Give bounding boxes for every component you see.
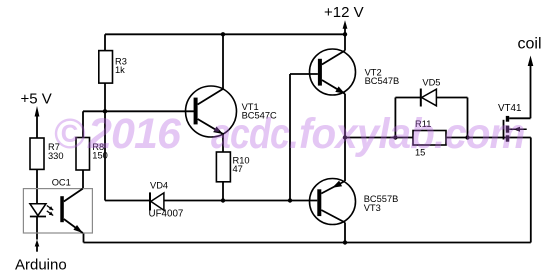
arrow +5V (35, 106, 40, 117)
wire VT2 collector (344, 34, 346, 50)
junction VT2/VT3 emitter node (343, 135, 347, 139)
wire VD5 right vertical (467, 98, 469, 138)
resistor R8 (76, 138, 108, 171)
wire R3 bottom to node (104, 83, 106, 111)
junction VD5 left / R11 left node (393, 135, 397, 139)
svg-text:UF4007: UF4007 (149, 209, 184, 220)
svg-text:OC1: OC1 (52, 178, 71, 188)
wire VT1 emitter to R10 (222, 134, 224, 152)
svg-text:VD5: VD5 (422, 78, 440, 88)
diode VD5 (421, 78, 441, 107)
svg-text:coil: coil (518, 36, 542, 53)
junction R3 bottom / R8 / VT1 base node (103, 109, 107, 113)
wire VD4 left (105, 200, 150, 202)
wire +12V arrow shaft (344, 27, 346, 34)
arrow +12V (343, 20, 348, 29)
light arrows (47, 206, 53, 211)
wire MOSFET source down (530, 138, 532, 243)
phototransistor (60, 196, 64, 222)
optocoupler OC1 (23, 178, 92, 234)
wire VD5 top right (436, 97, 467, 99)
junction VT2/VT3 base node (288, 198, 292, 202)
wire MOSFET drain (509, 117, 530, 119)
wire R10 bottom (222, 182, 224, 201)
transistor VT2 (310, 49, 400, 95)
wire bottom rail (84, 242, 531, 244)
wire VD5 left vertical (394, 98, 396, 138)
diode VD4 (149, 180, 184, 219)
wire VT2 emitter down (344, 94, 346, 138)
resistor R7 (30, 138, 64, 169)
svg-text:VD4: VD4 (150, 180, 168, 190)
wire VT1 collector (222, 34, 224, 89)
svg-text:+5 V: +5 V (21, 90, 52, 107)
svg-text:Arduino: Arduino (15, 257, 67, 274)
wire VT3 emitter up (344, 138, 346, 182)
junction VT1 collector on +12V rail (221, 32, 225, 36)
arrow coil (528, 56, 534, 67)
wire OC1 emitter to rail (83, 233, 85, 243)
wire VT3 collector down (344, 223, 346, 243)
wire VD4 right to VT3 base (164, 200, 317, 202)
resistor R3 (99, 51, 127, 84)
wire R7 to LED (36, 169, 38, 203)
junction VD5 right / R11 right node (465, 135, 469, 139)
wire R11 right to MOSFET (446, 137, 531, 139)
svg-text:+12 V: +12 V (324, 4, 364, 21)
arrow Arduino input (35, 240, 40, 247)
watermark (54, 113, 86, 156)
wire emitter node to R11 (345, 137, 413, 139)
wire VT2 base (290, 73, 318, 75)
wire Arduino arrow shaft (36, 246, 38, 252)
svg-text:VT3: VT3 (364, 203, 381, 213)
resistor R10 (216, 152, 249, 182)
wire coil vertical (530, 64, 532, 118)
svg-text:1k: 1k (115, 65, 125, 75)
junction R10 bottom on VD4 wire (221, 198, 225, 202)
LED triangle (30, 204, 46, 216)
wire +5V arrow shaft (36, 114, 38, 138)
svg-text:47: 47 (233, 164, 243, 174)
wire node to VT1 base (83, 110, 195, 112)
wire VD5 top left (395, 97, 420, 99)
wire R3 top (104, 34, 106, 50)
resistor R11 (413, 119, 446, 157)
transistor VT1 (186, 86, 278, 137)
svg-text:BC547B: BC547B (365, 76, 400, 86)
wire top rail +12V (105, 33, 345, 35)
transistor VT3 (310, 179, 399, 225)
junction +12V supply node (343, 32, 347, 36)
MOSFET VT41 (498, 103, 527, 142)
wire node down to VD4 (104, 111, 106, 200)
wire node down to R8 (82, 111, 84, 137)
junction VT3 collector on ground rail (343, 240, 347, 244)
wire LED cathode down (36, 216, 38, 239)
wire R8 to OC1 collector (82, 170, 84, 189)
wire VT2 base to VT3 base vertical (289, 74, 291, 201)
